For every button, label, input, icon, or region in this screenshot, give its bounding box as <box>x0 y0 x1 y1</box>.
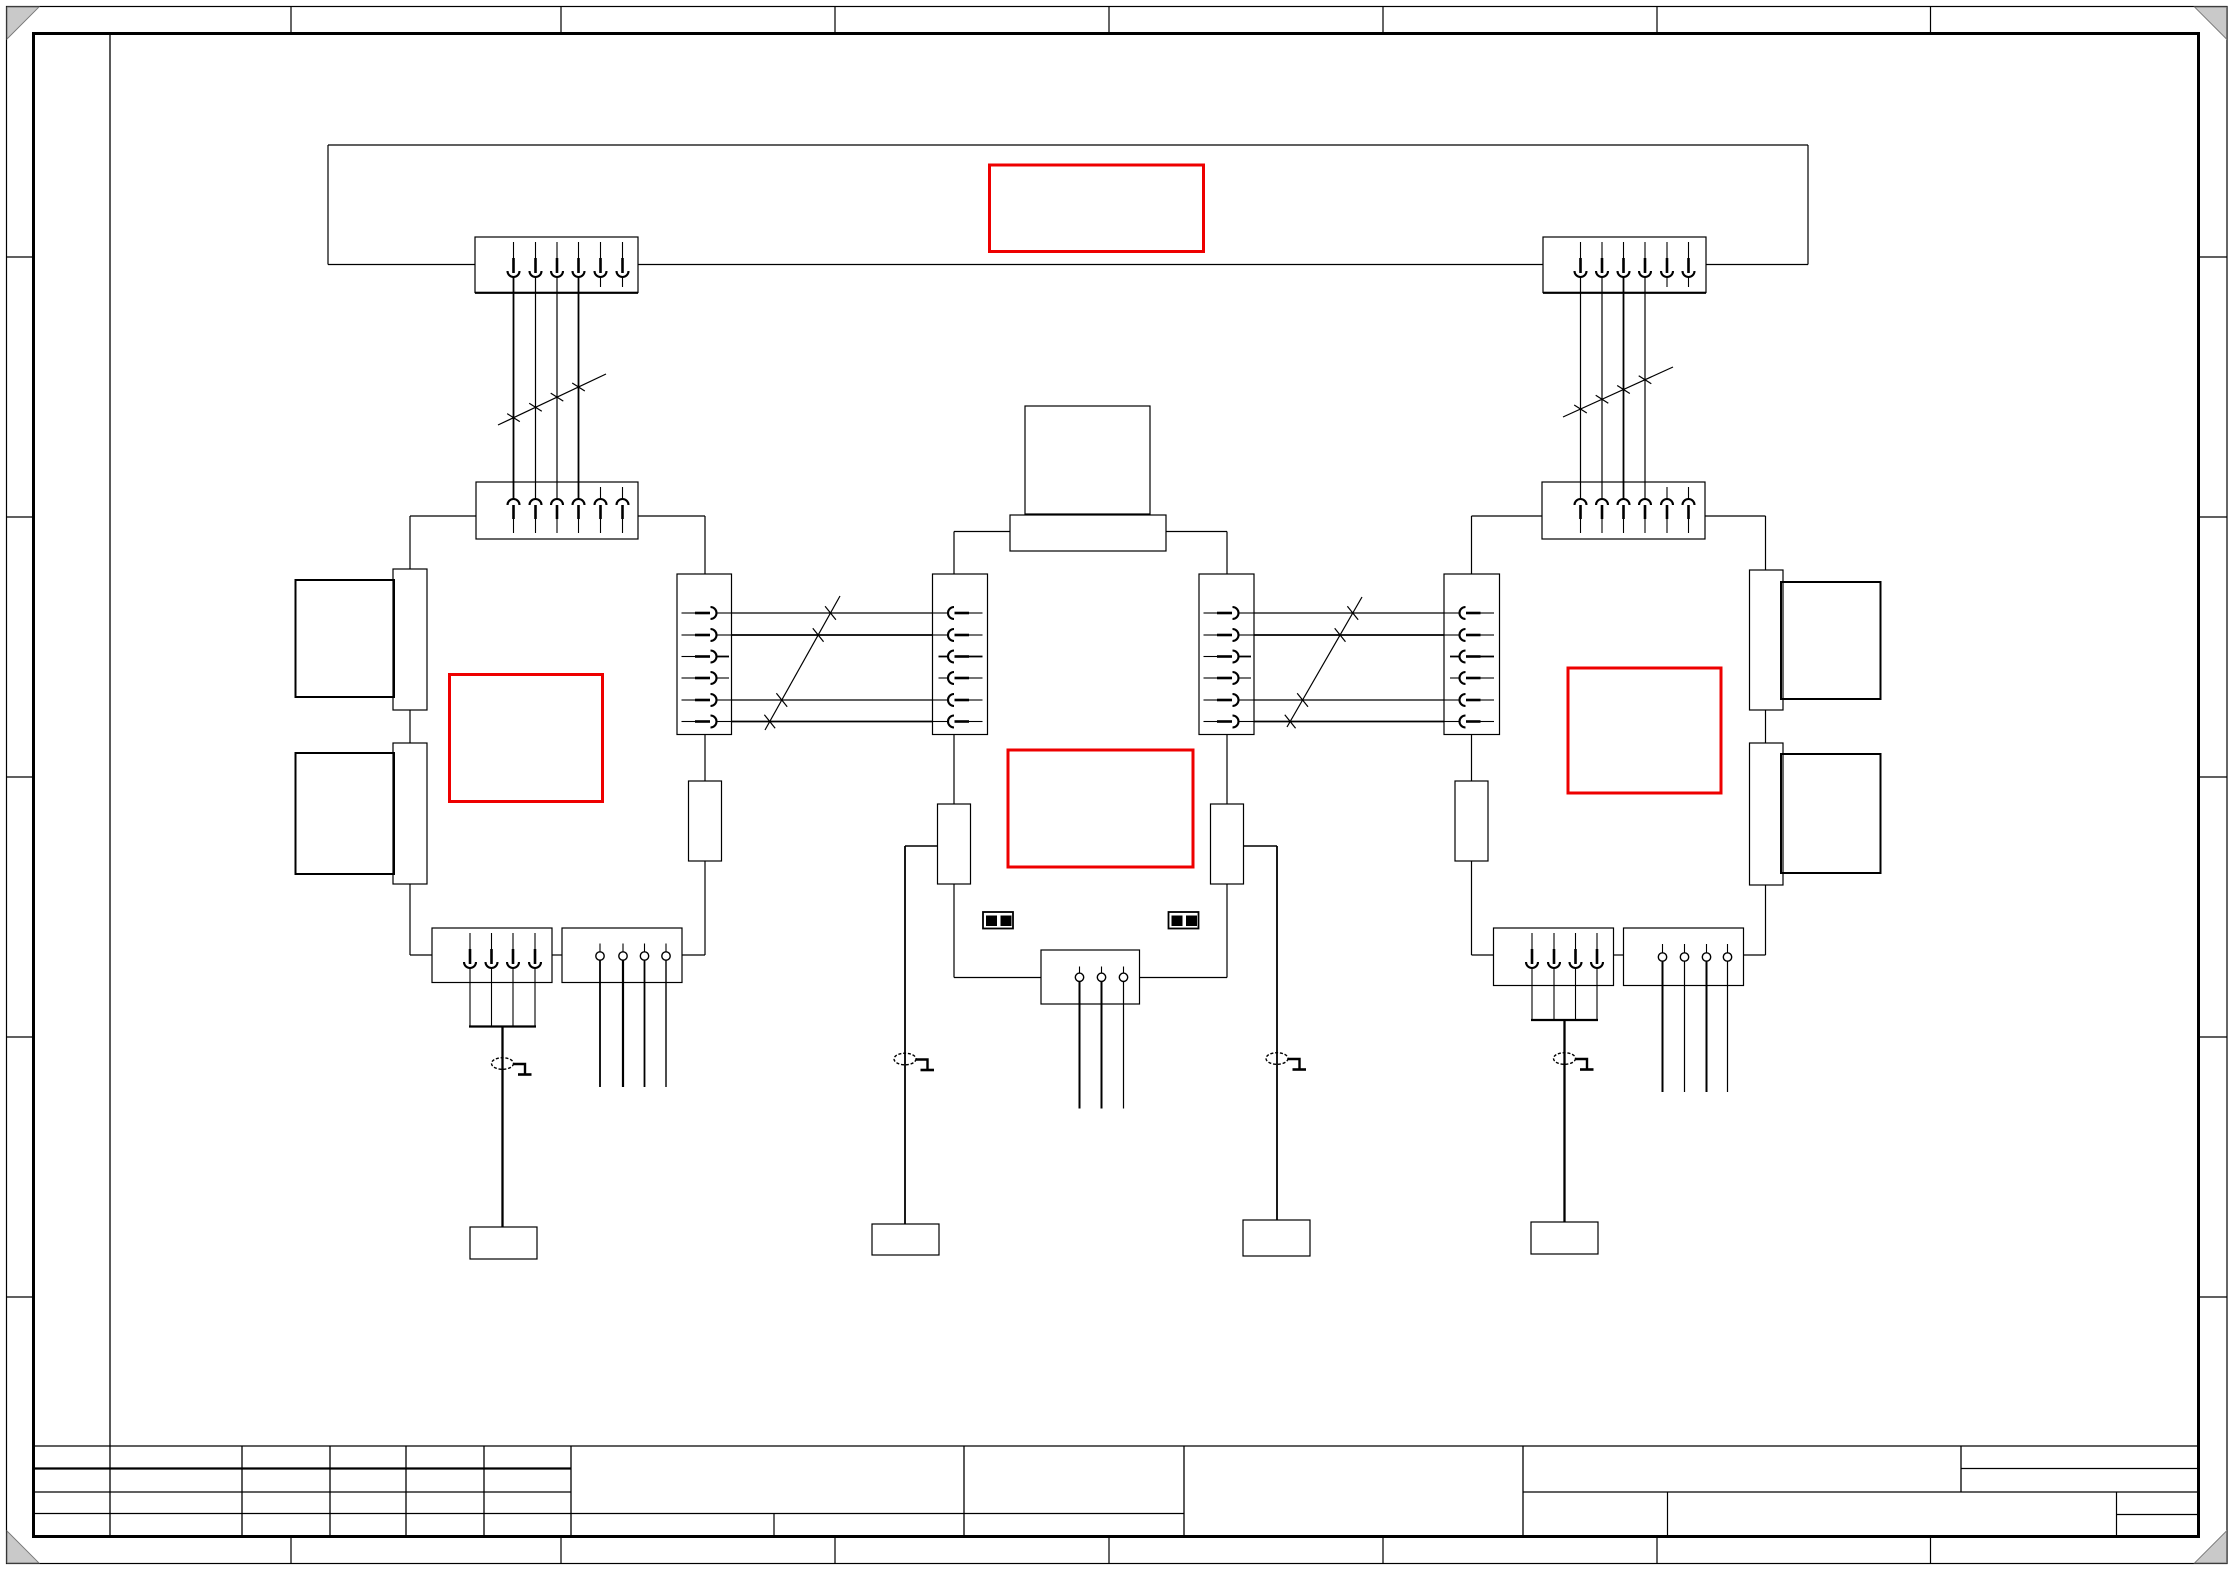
wire right-block east 2 <box>1765 710 1767 743</box>
jumper XJ1 <box>983 912 1013 929</box>
wire group W7 (XT3 to XT4) <box>1254 613 1444 722</box>
group marker on W7 <box>1285 597 1362 728</box>
interface unit A1.1 (narrow) <box>393 569 427 710</box>
junction bracket J1 <box>469 1025 536 1027</box>
wire right-block east 3 <box>1744 885 1766 955</box>
bus unit A0 (top distribution box) <box>328 145 1808 265</box>
wire XT2 bottom lead <box>953 735 955 805</box>
control unit A2 (top box) <box>1025 406 1150 514</box>
connector XS2 (right block top, 6 pins) <box>1542 482 1705 539</box>
group marker on W5 <box>764 596 840 730</box>
wire XT1 bottom lead <box>704 735 706 782</box>
wire R3 to XS5 <box>1140 884 1228 978</box>
highlight box H1 (top) <box>990 165 1204 252</box>
connector XS1 (left block top, 6 pins) <box>476 482 638 539</box>
resistor R1 (ballast) <box>689 781 722 861</box>
connector XT2 (center west, 6 pins) <box>933 574 988 735</box>
interface unit A3.1 (narrow) <box>1750 570 1784 710</box>
connector XT1 (left block east, 6 pins) <box>677 574 732 735</box>
group marker on W1 <box>498 374 606 425</box>
wire XT4 bottom lead <box>1471 735 1473 782</box>
shield ground G4 <box>1554 1053 1594 1070</box>
wire XS2 right lead <box>1705 515 1766 517</box>
wire R2 to XS5 <box>954 884 1041 978</box>
shield ground G2 <box>894 1053 934 1070</box>
jumper XJ2 <box>1169 912 1199 929</box>
earth terminal E4 <box>1531 1222 1598 1254</box>
wire R4 to XS6 <box>1472 861 1494 955</box>
resistor R4 <box>1455 781 1488 861</box>
connector XS4 (left block bottom-right, 4 pins) <box>562 928 682 983</box>
wire group W4 (free leads) <box>600 960 666 1087</box>
wire ground stem right <box>1563 1020 1565 1222</box>
wire group W5 (XT1 to XT2) <box>732 613 933 722</box>
wire group W3 (XS3 to join) <box>470 968 535 1027</box>
group marker on W2 <box>1563 367 1673 417</box>
shield ground G3 <box>1266 1053 1306 1070</box>
connector XT3 (center east, 6 pins) <box>1199 574 1254 735</box>
connector XS3 (left block bottom-left, 4 pins) <box>432 928 552 983</box>
connector XP2 (top right, 6 pins) <box>1543 237 1706 293</box>
wire group W8 (XS6 to join) <box>1532 968 1597 1020</box>
wire A2.1 left lead <box>954 532 1010 575</box>
earth terminal E2 <box>872 1224 939 1255</box>
interface unit A3.2 (narrow) <box>1750 743 1784 885</box>
connector XS7 (right block bottom-right, 4 pins) <box>1624 928 1744 986</box>
device unit B2 (sheet) <box>296 753 395 874</box>
wire XS1 right lead <box>638 515 705 517</box>
connector XP1 (top left, 6 pins) <box>475 237 638 293</box>
junction bracket J2 <box>1531 1019 1598 1021</box>
wire R1 to XS4 <box>682 861 705 955</box>
interface unit A1.2 (narrow) <box>393 743 427 884</box>
wire left-block west 1 <box>409 516 411 569</box>
wire R3 ground tap <box>1244 846 1278 1220</box>
resistor R3 <box>1211 804 1244 884</box>
highlight box H4 (right block) <box>1568 668 1721 793</box>
wire group W1 (4 wires XP1-XS1) <box>514 277 579 499</box>
resistor R2 <box>938 804 971 884</box>
highlight box H2 (left block) <box>450 675 603 802</box>
wire XT3 bottom lead <box>1226 735 1228 805</box>
wire ground stem left <box>501 1027 503 1228</box>
device unit B3 (sheet) <box>1781 582 1881 699</box>
wire left-block west 3 <box>410 884 432 955</box>
wire right-block east 1 <box>1765 516 1767 570</box>
connector XT4 (right block west, 6 pins) <box>1444 574 1500 735</box>
earth terminal E1 <box>470 1227 537 1259</box>
wire group W2 (4 wires XP2-XS2) <box>1581 277 1646 499</box>
earth terminal E3 <box>1243 1220 1310 1256</box>
wire XS6-XS7 bridge <box>1614 954 1624 956</box>
highlight box H3 (center block) <box>1008 750 1193 867</box>
adapter unit A2.1 (flat box) <box>1010 515 1166 551</box>
device unit B4 (sheet) <box>1781 754 1881 873</box>
connector XS5 (center bottom, 3 pins) <box>1041 950 1140 1004</box>
wire XT1 top lead <box>704 516 706 574</box>
wire XT4 top lead <box>1471 516 1473 574</box>
wire A2.1 right lead <box>1166 532 1227 575</box>
wire XS2 left lead <box>1472 515 1543 517</box>
wire group W9 (XS7 free leads) <box>1663 961 1728 1092</box>
wire XS1 left lead <box>410 515 476 517</box>
wire XS3-XS4 bridge <box>552 954 562 956</box>
shield ground G1 <box>492 1058 532 1075</box>
connector XS6 (right block bottom-left, 4 pins) <box>1494 928 1614 986</box>
device unit B1 (sheet) <box>296 580 395 697</box>
wire group W6 (XS5 free leads) <box>1080 982 1124 1109</box>
wire R2 ground tap <box>905 846 938 1224</box>
wire left-block west 2 <box>409 710 411 743</box>
